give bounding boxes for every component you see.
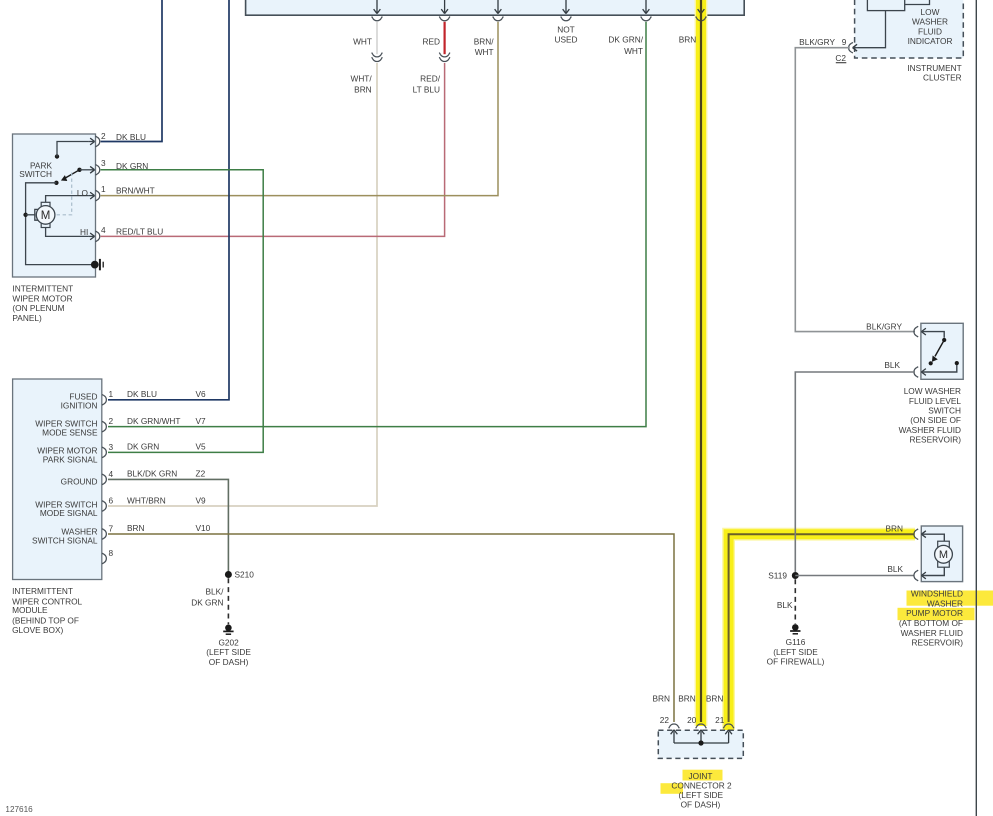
svg-text:6: 6 — [109, 495, 114, 505]
svg-text:CLUSTER: CLUSTER — [923, 73, 962, 83]
svg-text:SWITCH SIGNAL: SWITCH SIGNAL — [32, 535, 98, 545]
svg-text:MODE SIGNAL: MODE SIGNAL — [40, 508, 98, 518]
svg-text:OF FIREWALL): OF FIREWALL) — [767, 656, 825, 666]
svg-text:DK GRN: DK GRN — [191, 598, 223, 608]
svg-text:RED/: RED/ — [420, 73, 441, 83]
park switch blade — [61, 170, 80, 181]
label BLK/GRY 9 — [799, 37, 847, 47]
label DK GRN/WHT — [608, 34, 643, 56]
connector cup joint pin 21 — [723, 724, 734, 728]
joint connector internal bus — [674, 742, 729, 744]
svg-text:GLOVE BOX): GLOVE BOX) — [12, 625, 63, 635]
svg-text:WIPER MOTOR: WIPER MOTOR — [12, 294, 72, 304]
pin cup level switch BLK/GRY — [914, 326, 918, 337]
svg-text:BRN: BRN — [678, 694, 696, 704]
svg-text:IGNITION: IGNITION — [61, 401, 98, 411]
svg-text:2: 2 — [109, 416, 114, 426]
svg-text:V9: V9 — [196, 496, 207, 506]
label BRN top — [679, 34, 697, 44]
wire motor to LO pin 1 — [46, 192, 95, 202]
svg-text:RED/LT BLU: RED/LT BLU — [116, 227, 163, 237]
svg-text:4: 4 — [109, 469, 114, 479]
svg-text:V10: V10 — [196, 523, 211, 533]
wire BRN/WHT column to wiper motor pin 1 — [101, 22, 498, 196]
wire BLK/DK GRN module pin 4 to S210 — [108, 479, 228, 571]
park switch blade contact to pin 3 — [77, 166, 94, 173]
label DK BLU — [116, 132, 146, 142]
joint connector internal arrow pin 20 — [698, 730, 705, 743]
label LOW WASHER FLUID LEVEL SWITCH (ON SIDE OF WASHER FLUID RESERVOIR) — [899, 386, 962, 444]
label NOT USED — [554, 25, 577, 45]
svg-text:(LEFT SIDE: (LEFT SIDE — [679, 790, 724, 800]
svg-text:DK BLU: DK BLU — [116, 132, 146, 142]
wire DK BLU wiper motor pin 2 to top — [101, 0, 162, 142]
svg-text:C2: C2 — [835, 53, 846, 63]
label PARK SWITCH — [19, 160, 52, 179]
pin number module 6 — [109, 495, 114, 505]
svg-text:PANEL): PANEL) — [12, 313, 42, 323]
module wire label DK GRN/WHT V7 — [127, 416, 206, 426]
instrument cluster box (dashed) — [855, 0, 964, 58]
svg-text:BRN: BRN — [679, 34, 697, 44]
svg-text:WHT: WHT — [624, 46, 643, 56]
pin cup module pin 3 — [102, 447, 106, 458]
pin number 20 — [687, 715, 697, 725]
pump motor M2 circle — [935, 545, 953, 563]
splice S210 — [225, 571, 232, 578]
svg-text:WHT: WHT — [353, 36, 372, 46]
svg-text:DK GRN: DK GRN — [127, 442, 159, 452]
level switch blade — [932, 340, 944, 362]
pin number module 3 — [109, 442, 114, 452]
module wire label DK BLU V6 — [127, 389, 206, 399]
pin cup module pin 1 — [102, 395, 106, 406]
svg-text:OF DASH): OF DASH) — [209, 657, 249, 667]
module label WIPER SWITCH MODE SIGNAL — [35, 499, 98, 518]
svg-text:DK GRN/: DK GRN/ — [608, 34, 643, 44]
wiper switch internal arrow pin BRN — [698, 0, 705, 14]
svg-text:(ON PLENUM: (ON PLENUM — [12, 303, 64, 313]
svg-text:21: 21 — [715, 715, 725, 725]
svg-text:DK GRN: DK GRN — [116, 161, 148, 171]
label BLK/GRY at level switch — [866, 321, 902, 331]
level switch pin BLK arrow — [921, 365, 956, 375]
pin cup wiper motor pin 1 — [96, 190, 100, 201]
intermittent wiper motor box — [13, 134, 96, 277]
park switch lower contact — [54, 181, 58, 185]
in-line connector RED to RED/LT BLU — [439, 53, 450, 62]
pump motor pin BLK arrow — [921, 567, 944, 578]
connector cup joint pin 22 — [669, 724, 680, 728]
pin cup instrument cluster C2-9 — [849, 42, 853, 53]
splice S119 — [792, 572, 799, 579]
label C2 — [835, 53, 846, 63]
pin cup module pin 7 — [102, 529, 106, 540]
svg-text:PARK SIGNAL: PARK SIGNAL — [43, 454, 98, 464]
svg-text:CONNECTOR 2: CONNECTOR 2 — [671, 780, 732, 790]
joint connector bus junction — [698, 740, 703, 745]
module wire label BLK/DK GRN Z2 — [127, 469, 206, 479]
wire dashed S119 to G116 — [794, 579, 796, 624]
windshield washer pump motor box — [921, 526, 962, 582]
pin number module 4 — [109, 469, 114, 479]
pin cup wiper motor pin 2 — [96, 136, 100, 147]
label S210 — [235, 570, 255, 580]
label BRN joint pin 20 — [678, 694, 696, 704]
park switch mechanical linkage (dashed) — [56, 173, 72, 215]
label RED/LT BLU pin4 — [116, 227, 163, 237]
svg-text:SWITCH: SWITCH — [928, 406, 961, 416]
module label WASHER SWITCH SIGNAL — [32, 526, 98, 545]
svg-text:BLK/: BLK/ — [206, 586, 225, 596]
level switch pin BLK/GRY arrow — [921, 328, 944, 338]
pin number 1 — [101, 184, 106, 194]
text highlight CONNECTOR 2 left swipe — [661, 783, 684, 794]
svg-text:RESERVOIR): RESERVOIR) — [912, 638, 964, 648]
module label WIPER SWITCH MODE SENSE — [35, 419, 98, 438]
wire BRN core joint connector pin 21 to washer pump — [729, 534, 914, 722]
text highlight PUMP MOTOR — [898, 608, 975, 620]
svg-text:2: 2 — [101, 131, 106, 141]
svg-text:BRN/: BRN/ — [474, 36, 495, 46]
svg-text:S119: S119 — [768, 570, 787, 580]
svg-text:M: M — [41, 210, 51, 222]
ground G202 — [223, 625, 233, 635]
svg-text:INTERMITTENT: INTERMITTENT — [12, 284, 73, 294]
pin cup wiper motor pin 4 — [96, 231, 100, 242]
module wire label WHT/BRN V9 — [127, 496, 206, 506]
svg-text:127616: 127616 — [5, 805, 33, 814]
svg-text:BLK: BLK — [887, 564, 903, 574]
wire BRN column core to joint connector pin 20 — [700, 0, 702, 722]
pump motor pin BRN arrow — [921, 531, 944, 541]
label WHT/BRN column — [350, 73, 372, 94]
svg-text:WINDSHIELD: WINDSHIELD — [911, 589, 963, 599]
motor left terminal bracket — [35, 209, 39, 220]
wire park switch contact to motor/ground — [26, 183, 91, 265]
label INTERMITTENT WIPER CONTROL MODULE (BEHIND TOP OF GLOVE BOX) — [12, 586, 82, 635]
park switch contact to pin 2 — [55, 138, 95, 159]
svg-text:V6: V6 — [196, 389, 207, 399]
wire RED/LT BLU column to wiper motor pin 4 — [101, 63, 445, 236]
wire highlight band BRN inside wiper switch box — [695, 0, 708, 16]
svg-text:INTERMITTENT: INTERMITTENT — [12, 586, 73, 596]
label BLK/DK GRN at S210 — [191, 586, 224, 607]
svg-text:LO: LO — [77, 188, 89, 198]
label G202 (LEFT SIDE OF DASH) — [206, 638, 251, 667]
svg-text:SWITCH: SWITCH — [19, 169, 52, 179]
svg-text:Z2: Z2 — [196, 469, 206, 479]
svg-text:S210: S210 — [235, 570, 255, 580]
label JOINT CONNECTOR 2 (LEFT SIDE OF DASH) — [671, 771, 732, 810]
pin cup module pin 8 — [102, 553, 106, 564]
in-line connector WHT to WHT/BRN — [372, 53, 383, 62]
module label WIPER MOTOR PARK SIGNAL — [37, 446, 98, 465]
wire WHT segment — [376, 22, 378, 54]
pin number 2 — [101, 131, 106, 141]
wire BLK S119 to washer pump — [795, 575, 914, 577]
svg-text:OF DASH): OF DASH) — [681, 799, 721, 809]
svg-text:G202: G202 — [218, 638, 239, 648]
wire DK GRN/WHT column to module pin 2 — [108, 22, 646, 427]
pin cup pump motor BLK — [914, 570, 918, 581]
svg-text:WHT: WHT — [475, 47, 494, 57]
svg-text:WASHER FLUID: WASHER FLUID — [901, 628, 963, 638]
svg-text:(LEFT SIDE: (LEFT SIDE — [773, 647, 818, 657]
svg-text:MODULE: MODULE — [12, 605, 48, 615]
connector cup at wiper switch, WHT wire — [372, 17, 383, 21]
cluster internal wire from indicator to C2 pin — [853, 11, 886, 51]
svg-text:PUMP MOTOR: PUMP MOTOR — [906, 608, 963, 618]
pin number 3 — [101, 158, 106, 168]
level switch upper contact — [942, 338, 946, 342]
pin cup module pin 6 — [102, 501, 106, 512]
svg-text:3: 3 — [109, 442, 114, 452]
wiper motor M1 brushes — [41, 202, 50, 227]
wire BLK level switch to S119 — [795, 372, 915, 572]
module wire label BRN V10 — [127, 523, 211, 533]
junction dot motor left terminal — [23, 213, 27, 217]
svg-text:WASHER: WASHER — [912, 17, 948, 27]
svg-text:RED: RED — [422, 36, 440, 46]
wire RED segment — [444, 22, 446, 54]
pin cup module pin 2 — [102, 421, 106, 432]
pin number 4 — [101, 225, 106, 235]
level switch lower-left contact — [929, 361, 933, 365]
wiper motor ground pin — [91, 259, 103, 270]
pin cup wiper motor pin 3 — [96, 165, 100, 176]
pin number module 8 — [109, 548, 114, 558]
ground G116 — [790, 624, 800, 634]
svg-text:(ON SIDE OF: (ON SIDE OF — [910, 415, 961, 425]
text highlight WINDSHIELD WASHER — [907, 591, 993, 606]
svg-text:INDICATOR: INDICATOR — [908, 36, 953, 46]
svg-text:BLK/GRY: BLK/GRY — [866, 321, 902, 331]
svg-text:JOINT: JOINT — [689, 771, 713, 781]
wire DK BLU top to module pin 1 — [108, 0, 229, 400]
page frame border (right) — [975, 0, 977, 816]
wire BLK/GRY cluster C2 to level switch — [795, 48, 915, 332]
label G116 (LEFT SIDE OF FIREWALL) — [767, 637, 825, 666]
svg-text:RESERVOIR): RESERVOIR) — [910, 435, 962, 445]
svg-text:WHT/: WHT/ — [350, 73, 372, 83]
connector cup joint pin 20 — [696, 724, 707, 728]
connector cup at wiper switch, BRN wire — [696, 17, 707, 21]
label WHT — [353, 36, 372, 46]
label S119 — [768, 570, 787, 580]
label RED/LT BLU column — [413, 73, 441, 94]
connector cup at wiper switch, BRN/WHT wire — [493, 17, 504, 21]
intermittent wiper control module box — [13, 379, 102, 580]
level switch lower-right contact — [955, 361, 959, 365]
label BRN/WHT — [474, 36, 495, 57]
joint connector 2 box (dashed) — [658, 730, 743, 758]
svg-text:(BEHIND TOP OF: (BEHIND TOP OF — [12, 615, 79, 625]
svg-text:BLK/GRY: BLK/GRY — [799, 37, 835, 47]
pin number module 2 — [109, 416, 114, 426]
label BRN joint pin 22 — [652, 694, 670, 704]
svg-text:GROUND: GROUND — [61, 476, 98, 486]
pin number module 7 — [109, 523, 114, 533]
svg-text:8: 8 — [109, 548, 114, 558]
label BLK at washer pump — [887, 564, 903, 574]
svg-text:(AT BOTTOM OF: (AT BOTTOM OF — [899, 618, 963, 628]
svg-text:20: 20 — [687, 715, 697, 725]
svg-text:BRN: BRN — [885, 524, 903, 534]
pin cup pump motor BRN — [914, 529, 918, 540]
wire WHT/BRN column to module pin 6 — [108, 63, 377, 506]
svg-text:LOW WASHER: LOW WASHER — [904, 386, 961, 396]
svg-text:(LEFT SIDE: (LEFT SIDE — [206, 647, 251, 657]
svg-text:BLK: BLK — [884, 360, 900, 370]
svg-text:DK BLU: DK BLU — [127, 389, 157, 399]
svg-text:9: 9 — [842, 37, 847, 47]
wiper switch internal arrow pin BRN/WHT — [495, 0, 502, 14]
label HI — [80, 227, 88, 237]
label DK GRN — [116, 161, 148, 171]
label WINDSHIELD WASHER PUMP MOTOR (AT BOTTOM OF WASHER FLUID RESERVOIR) — [899, 589, 963, 648]
svg-text:WHT/BRN: WHT/BRN — [127, 496, 166, 506]
wire dashed S210 to G202 — [227, 578, 229, 624]
label BRN at washer pump — [885, 524, 903, 534]
svg-text:BLK: BLK — [777, 600, 793, 610]
pump motor M2 brushes — [938, 541, 950, 567]
module wire label DK GRN V5 — [127, 442, 206, 452]
label LOW WASHER FLUID INDICATOR — [908, 7, 953, 46]
wiper switch internal arrow pin RED — [441, 0, 448, 14]
label BLK at G116 — [777, 600, 793, 610]
connector cup at wiper switch, DK GRN/WHT wire — [641, 17, 652, 21]
document number 127616 — [5, 805, 33, 814]
label LO — [77, 188, 89, 198]
low washer fluid indicator lamp box — [867, 0, 904, 11]
connector cup at wiper switch, NOT USED wire — [561, 17, 572, 21]
wiper switch U-box (top, cut off) — [246, 0, 745, 15]
svg-text:22: 22 — [660, 715, 670, 725]
svg-text:7: 7 — [109, 523, 114, 533]
svg-text:BRN: BRN — [354, 84, 372, 94]
wiper switch internal arrow pin NOT USED — [563, 0, 570, 14]
svg-text:V5: V5 — [196, 442, 207, 452]
svg-text:USED: USED — [554, 34, 577, 44]
svg-text:1: 1 — [109, 389, 114, 399]
svg-text:BRN: BRN — [127, 523, 145, 533]
low washer fluid level switch box — [921, 323, 963, 379]
wiper switch internal arrow pin WHT — [374, 0, 381, 14]
svg-text:WASHER: WASHER — [927, 598, 963, 608]
connector cup at wiper switch, RED wire — [439, 17, 450, 21]
svg-text:4: 4 — [101, 225, 106, 235]
label BRN/WHT pin1 — [116, 186, 155, 196]
wire DK GRN wiper motor pin 3 to module pin 3 — [101, 170, 264, 453]
wire motor to HI pin 4 — [46, 228, 95, 240]
pin cup level switch BLK — [914, 367, 918, 378]
svg-text:3: 3 — [101, 158, 106, 168]
module label GROUND — [61, 476, 98, 486]
text highlight JOINT — [683, 770, 723, 781]
svg-text:WASHER FLUID: WASHER FLUID — [899, 425, 961, 435]
pin cup module pin 4 — [102, 474, 106, 485]
label BRN joint pin 21 — [706, 694, 724, 704]
svg-text:BRN: BRN — [652, 694, 670, 704]
svg-text:LT BLU: LT BLU — [413, 84, 440, 94]
svg-text:V7: V7 — [196, 416, 207, 426]
svg-text:BRN: BRN — [706, 694, 724, 704]
label INSTRUMENT CLUSTER — [907, 63, 961, 83]
wire to motor left terminal — [26, 214, 35, 216]
label BLK at level switch — [884, 360, 900, 370]
svg-text:INSTRUMENT: INSTRUMENT — [907, 63, 961, 73]
wire highlight band BRN vertical to joint connector pin 20 — [695, 0, 708, 726]
svg-text:M: M — [939, 549, 948, 561]
wiper switch internal arrow pin DK GRN/WHT — [643, 0, 650, 14]
wiper motor M1 circle — [36, 206, 55, 225]
svg-text:DK GRN/WHT: DK GRN/WHT — [127, 416, 180, 426]
svg-text:G116: G116 — [786, 637, 806, 647]
wire highlight band BRN joint connector pin 21 to washer pump — [729, 534, 915, 730]
cluster internal wire from indicator right — [905, 0, 930, 5]
pin number 21 — [715, 715, 725, 725]
svg-text:FLUID: FLUID — [918, 26, 942, 36]
label INTERMITTENT WIPER MOTOR (ON PLENUM PANEL) — [12, 284, 73, 323]
svg-text:BLK/DK GRN: BLK/DK GRN — [127, 469, 177, 479]
svg-text:BRN/WHT: BRN/WHT — [116, 186, 155, 196]
svg-text:1: 1 — [101, 184, 106, 194]
module label FUSED IGNITION — [61, 391, 98, 410]
joint connector internal arrow pin 21 — [725, 730, 732, 743]
wire BRN module pin 7 to joint connector pin 22 — [108, 534, 674, 722]
svg-text:FLUID LEVEL: FLUID LEVEL — [909, 396, 961, 406]
pin number 22 — [660, 715, 670, 725]
pin number module 1 — [109, 389, 114, 399]
svg-text:MODE SENSE: MODE SENSE — [42, 428, 98, 438]
joint connector internal arrow pin 22 — [671, 730, 678, 743]
svg-text:HI: HI — [80, 227, 88, 237]
label RED — [422, 36, 440, 46]
svg-text:NOT: NOT — [557, 25, 575, 35]
